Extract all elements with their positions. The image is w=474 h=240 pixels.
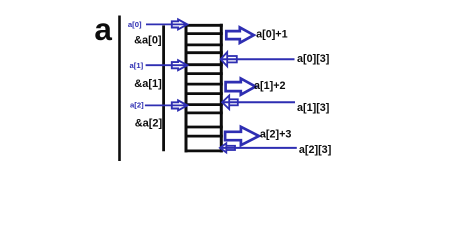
svg-text:a[2]+3: a[2]+3 [260, 128, 292, 140]
svg-text:a[0][3]: a[0][3] [297, 53, 329, 65]
svg-text:&a[2]: &a[2] [135, 118, 163, 130]
svg-text:a[0]: a[0] [128, 20, 142, 29]
svg-text:a[1]: a[1] [130, 61, 144, 70]
svg-text:a[0]+1: a[0]+1 [256, 29, 288, 41]
svg-text:a[2][3]: a[2][3] [299, 144, 331, 156]
svg-text:&a[0]: &a[0] [134, 35, 162, 47]
svg-text:a[1]+2: a[1]+2 [254, 80, 286, 92]
svg-text:&a[1]: &a[1] [134, 78, 162, 90]
svg-text:a: a [94, 11, 112, 47]
svg-text:a[2]: a[2] [130, 101, 144, 110]
svg-text:a[1][3]: a[1][3] [297, 102, 329, 114]
